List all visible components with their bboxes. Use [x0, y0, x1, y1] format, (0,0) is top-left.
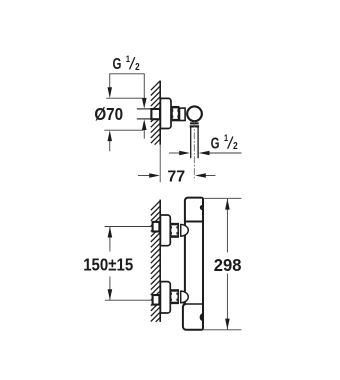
svg-text:Ø70: Ø70: [94, 105, 123, 124]
svg-text:2: 2: [233, 140, 238, 151]
svg-text:G: G: [113, 56, 122, 73]
svg-text:2: 2: [135, 61, 140, 72]
svg-text:298: 298: [214, 254, 242, 275]
svg-text:77: 77: [167, 168, 185, 185]
svg-text:G: G: [211, 135, 220, 152]
svg-text:150±15: 150±15: [83, 254, 133, 275]
svg-text:1: 1: [224, 133, 228, 143]
svg-text:1: 1: [126, 54, 130, 64]
